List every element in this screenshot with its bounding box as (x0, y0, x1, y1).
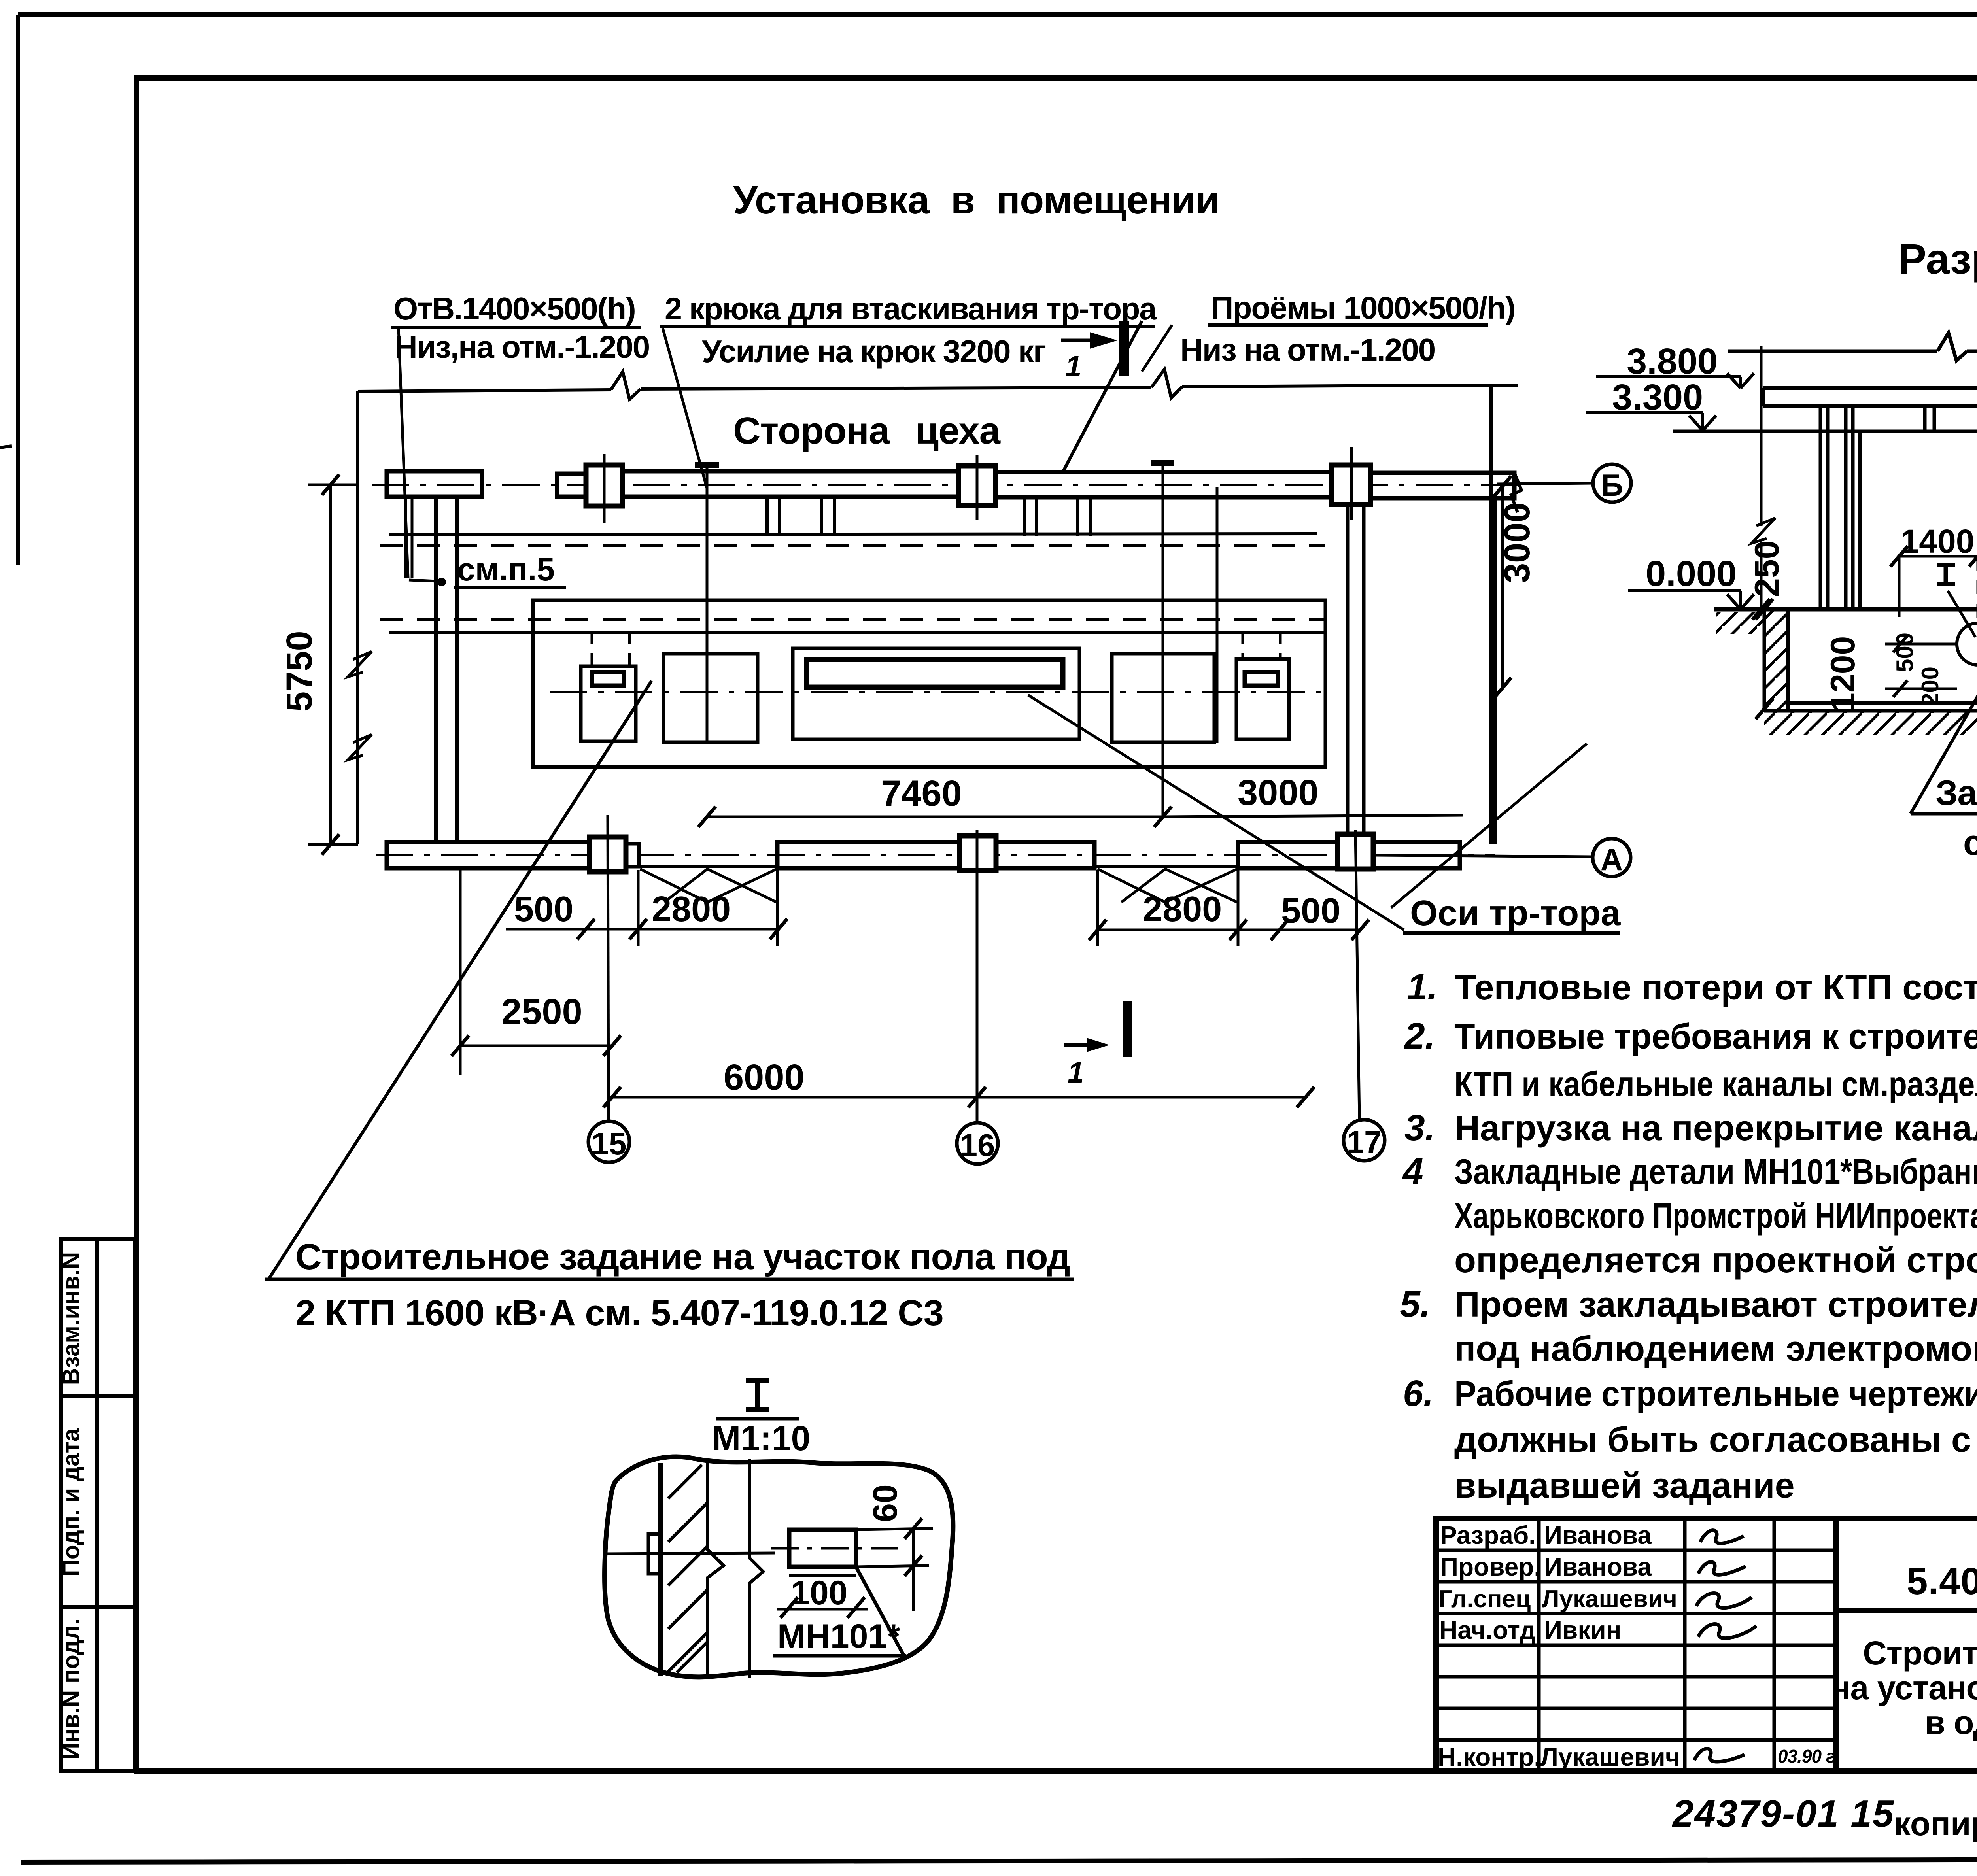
underline osi tr-tora (1403, 931, 1620, 935)
PLAN VIEW (265, 290, 1631, 1333)
svg-text:Низ,на отм.-1.200: Низ,на отм.-1.200 (395, 329, 649, 365)
bottom wall thin sill line across right opening (1094, 865, 1238, 868)
underline sm p 5 (454, 586, 566, 589)
cable canal top edge (389, 534, 1317, 535)
TITLE BLOCK (1436, 1519, 1977, 1771)
pit bottom inner (1788, 701, 1977, 705)
stamp divider 1 (61, 1394, 135, 1398)
underline under otv label (391, 326, 641, 329)
top wall band: left wall segment (387, 471, 482, 497)
transformer cell sq3 (1112, 654, 1214, 742)
wall pier under column3 (1346, 504, 1350, 835)
SECTION VIEW (1586, 235, 1977, 863)
svg-text:1.: 1. (1407, 966, 1438, 1007)
svg-text:5750: 5750 (279, 631, 319, 712)
svg-text:1400: 1400 (1901, 523, 1975, 560)
LEFT STAMP COLUMN (61, 1239, 135, 1771)
svg-text:5.407-119.0.06 С3: 5.407-119.0.06 С3 (1907, 1560, 1977, 1602)
dashed stub 3 (1242, 633, 1244, 659)
leader to hook 1 (663, 328, 707, 488)
svg-text:16: 16 (960, 1128, 995, 1163)
ktp room outline rectangle (533, 600, 1325, 767)
dim 1400 1100 line (1899, 555, 1977, 558)
signature squiggle 8 (1694, 1749, 1745, 1762)
svg-text:Строительное задание на участо: Строительное задание на участок пола под (295, 1237, 1070, 1277)
top wall band: segment column1 to column2 (622, 471, 959, 497)
svg-text:Разраб.: Разраб. (1440, 1521, 1536, 1549)
left edge artifact tick (0, 446, 12, 448)
svg-text:3000: 3000 (1238, 773, 1319, 813)
underline zakladnye (1911, 812, 1977, 816)
title block outline (1436, 1519, 1977, 1771)
svg-text:4: 4 (1402, 1151, 1423, 1192)
shop side boundary line with breaks (358, 390, 611, 391)
detail wall second line with break (708, 1463, 724, 1676)
sheet outer bottom border (21, 1859, 1977, 1862)
break marks on left vertical (348, 652, 372, 677)
small dim line 200 level (1885, 688, 1957, 690)
sheet outer top border (18, 12, 1977, 17)
row line 2 (1436, 1580, 1836, 1584)
top wall band: segment column3 to right end (1370, 473, 1514, 498)
top wall band right end break (1511, 473, 1521, 512)
dimension 2800 500 right line (1098, 929, 1360, 931)
left extension line with 250 dim (1760, 346, 1763, 526)
dimension 3000 right vertical (1501, 486, 1504, 688)
svg-text:2500: 2500 (501, 992, 582, 1032)
signature table vertical 3 (1773, 1519, 1776, 1771)
svg-text:250: 250 (1748, 540, 1786, 597)
hatch under pit bottom (1764, 712, 1977, 735)
row line 3 (1436, 1612, 1836, 1615)
svg-text:Разрез 1-1: Разрез 1-1 (1898, 235, 1977, 283)
svg-text:Низ на отм.-1.200: Низ на отм.-1.200 (1180, 332, 1435, 367)
floor note underline (265, 1278, 1074, 1281)
svg-text:в один ряд.: в один ряд. (1925, 1704, 1977, 1741)
opening X mark right (1098, 869, 1237, 902)
svg-text:Б: Б (1601, 468, 1623, 503)
row line 4 (1436, 1644, 1836, 1647)
column 3 centerline vertical (1350, 447, 1353, 520)
signature squiggle 3 (1696, 1593, 1752, 1608)
svg-text:Харьковского Промстрой НИИпрое: Харьковского Промстрой НИИпроекта. Цифро… (1454, 1196, 1977, 1236)
svg-text:500: 500 (1892, 633, 1918, 672)
sq4 inner tab (1245, 672, 1278, 686)
svg-text:60: 60 (866, 1484, 904, 1522)
dashed stub 4 (1279, 633, 1282, 659)
stamp inner divider vertical (95, 1239, 99, 1771)
axis line 15 (608, 815, 609, 1121)
svg-text:2800: 2800 (652, 890, 731, 929)
svg-text:0.000: 0.000 (1646, 554, 1737, 594)
detail label I (755, 1381, 760, 1410)
plate dash-dot line (771, 1547, 905, 1550)
beam bottom line (1673, 430, 1977, 433)
extension verticals for left 500 2800 (637, 870, 640, 946)
svg-text:2 КТП 1600 кВ·А см. 5.407-119.: 2 КТП 1600 кВ·А см. 5.407-119.0.12 С3 (295, 1293, 943, 1333)
detail mid vertical line with break (749, 1459, 763, 1678)
pit bottom outer (1764, 709, 1977, 713)
extension vertical for 2500 (459, 870, 462, 1075)
svg-text:Подп. и дата: Подп. и дата (58, 1428, 84, 1576)
leader to zakladnye text (1911, 680, 1977, 814)
transformer cell sq4 (1236, 659, 1289, 739)
signature squiggle 1 (1700, 1530, 1744, 1543)
row line 6 (1436, 1707, 1836, 1710)
column 15 on bottom wall (590, 837, 626, 872)
pit left outer wall (1763, 609, 1766, 709)
dimension 2500 line (460, 1045, 612, 1047)
section cut mark bottom arrow (1064, 1043, 1103, 1047)
svg-text:17: 17 (1347, 1124, 1382, 1160)
hatch pit left wall (1766, 611, 1786, 709)
svg-text:Сторона цеха: Сторона цеха (733, 410, 1001, 452)
pilaster 1 below band (765, 497, 769, 536)
small dim line 500 level (1885, 643, 1956, 646)
svg-text:Нач.отд: Нач.отд (1439, 1616, 1536, 1644)
shop side left vertical edge (356, 391, 359, 844)
axis line 16 (976, 830, 979, 1123)
svg-text:ОтВ.1400×500(h): ОтВ.1400×500(h) (393, 291, 635, 326)
dimension 7460 line (707, 816, 1163, 818)
svg-text:500: 500 (1281, 891, 1340, 931)
triangle leader side (856, 1567, 903, 1655)
hook 1 top bar (695, 462, 719, 468)
detail wall hatch strokes (668, 1465, 708, 1672)
svg-text:Оси тр-тора: Оси тр-тора (1410, 894, 1621, 933)
underline under proemy label (1208, 323, 1488, 327)
cable canal dashed line 2 (380, 618, 1325, 621)
svg-text:КТП и кабельные каналы см.разд: КТП и кабельные каналы см.разделы 3 и 6 … (1454, 1064, 1977, 1103)
column 17 on bottom wall (1338, 834, 1373, 869)
dim ticks 100 (781, 1597, 865, 1618)
bottom wall band: stub right of column 15 (626, 844, 639, 867)
dim ticks 1200 (1756, 599, 1773, 719)
svg-text:3.: 3. (1404, 1107, 1435, 1148)
pilaster 2 below band (820, 497, 823, 536)
cable canal bottom edge (389, 631, 1325, 634)
left column of section (4 lines) (1819, 406, 1822, 609)
svg-text:6.: 6. (1403, 1373, 1434, 1414)
svg-text:2 крюка для втаскивания тр-тор: 2 крюка для втаскивания тр-тора (665, 291, 1157, 326)
svg-text:определяется проектной строите: определяется проектной строительной орга… (1454, 1241, 1977, 1280)
signature table vertical 1 (1537, 1519, 1541, 1771)
svg-text:5.: 5. (1400, 1283, 1431, 1324)
axis line 17 (1355, 830, 1359, 1120)
dimension 5750 vertical line (329, 485, 332, 844)
extension verticals for right 2800 500 (1096, 870, 1099, 946)
column 2 on top wall (958, 466, 996, 505)
right transformer axis vertical (1216, 487, 1219, 743)
cable canal dashed line 1 (380, 544, 1325, 547)
top wall band: stub after opening (557, 474, 586, 497)
leader osi tr-tora diagonal 2 (1391, 744, 1587, 908)
short tick below proemy underline (1142, 325, 1172, 372)
svg-text:Н.контр.: Н.контр. (1438, 1743, 1541, 1771)
underline under hooks label (660, 325, 1155, 328)
svg-text:24379-01 15: 24379-01 15 (1672, 1793, 1894, 1835)
dashed stub 1 from canal to sq1 (591, 633, 593, 666)
sq1 inner tab (592, 672, 624, 686)
svg-text:2800: 2800 (1143, 890, 1222, 929)
extension line to circle B (1497, 483, 1593, 484)
extension lines for 60 (856, 1528, 933, 1530)
svg-text:Лукашевич: Лукашевич (1540, 1743, 1680, 1771)
svg-text:А: А (1601, 842, 1623, 877)
pit left inner wall (1786, 609, 1790, 709)
dimension 6000 line (612, 1096, 1306, 1099)
switchgear inner long bar (807, 659, 1063, 687)
axis circle 15 (588, 1121, 629, 1162)
svg-text:1: 1 (1068, 1056, 1084, 1089)
slab left end (1761, 388, 1765, 406)
wall opening edge lines (otv) (404, 499, 407, 578)
leader from I to circle (1948, 591, 1975, 637)
dim line 100 (777, 1608, 868, 1611)
detail small tab on wall (648, 1534, 661, 1574)
embedded plate MN101 (789, 1530, 856, 1567)
svg-text:2.: 2. (1404, 1015, 1435, 1056)
svg-text:Усилие на крюк 3200 кг: Усилие на крюк 3200 кг (702, 334, 1046, 369)
doc number cell bottom (1836, 1608, 1977, 1613)
section cut mark bottom thick bar (1123, 1001, 1132, 1057)
svg-text:Типовые требования к строитель: Типовые требования к строительным задани… (1454, 1017, 1977, 1056)
axis circle A (1593, 839, 1631, 877)
top wall band: segment column2 to column3 (996, 472, 1332, 497)
transformer cell sq1 (581, 666, 636, 741)
svg-text:Иванова: Иванова (1544, 1521, 1652, 1549)
svg-text:100: 100 (791, 1574, 848, 1612)
bottom wall thin sill line across left opening (639, 865, 777, 868)
svg-text:Провер.: Провер. (1440, 1553, 1541, 1581)
slab top line (1763, 386, 1977, 390)
svg-text:см.п.5: см.п.5 (457, 552, 555, 588)
big leader line to floor note (268, 681, 652, 1279)
stamp divider 2 (61, 1605, 135, 1609)
svg-text:Гл.спец: Гл.спец (1438, 1585, 1531, 1613)
plate bottom line (789, 1574, 856, 1577)
svg-text:Нагрузка на перекрытие канала: Нагрузка на перекрытие канала - 200 кг/м… (1454, 1109, 1977, 1148)
svg-text:на установку 2КТП-1600: на установку 2КТП-1600 (1831, 1669, 1977, 1706)
bottom wall centerline dash-dot (376, 854, 1495, 856)
svg-text:Ивкин: Ивкин (1544, 1616, 1621, 1644)
svg-text:Взам.инв.N: Взам.инв.N (58, 1252, 84, 1385)
svg-text:Рабочие строительные чертежи д: Рабочие строительные чертежи до выдачи и… (1454, 1374, 1977, 1414)
tick line to dot (409, 580, 437, 581)
node circle in pit (1957, 623, 1977, 665)
hook 1 axis line down to transformer (706, 465, 709, 742)
svg-text:должны быть согласованы с прое: должны быть согласованы с проектной орга… (1454, 1420, 1977, 1460)
detail label line (716, 1417, 799, 1421)
slab bottom line (1763, 404, 1977, 408)
signature squiggle 2 (1698, 1562, 1746, 1575)
section cut mark top: thick bar (1119, 321, 1129, 376)
column 1 centerline (603, 454, 606, 523)
svg-text:выдавшей задание: выдавшей задание (1454, 1466, 1795, 1506)
svg-text:200: 200 (1917, 667, 1943, 706)
hook 2 top bar (1151, 460, 1174, 466)
section cut mark top: arrow (1061, 339, 1107, 342)
svg-text:копировал: Барковская: копировал: Барковская (1894, 1805, 1977, 1842)
hatch left of pit (1716, 612, 1763, 634)
axis circle 17 (1344, 1120, 1385, 1161)
signature table vertical 2 (1683, 1519, 1687, 1771)
big divider left of doc cell (1833, 1519, 1839, 1771)
svg-text:500: 500 (514, 890, 573, 929)
axis circle B (1593, 464, 1631, 502)
svg-text:Инв.N подл.: Инв.N подл. (58, 1618, 84, 1760)
detail blob outline (605, 1457, 953, 1677)
column 3 on top wall (1332, 465, 1370, 504)
detail centerline horizontal (605, 1553, 775, 1554)
svg-text:Проем закладывают строители по: Проем закладывают строители после прокла… (1454, 1285, 1977, 1324)
leader from otv label to wall opening (399, 328, 408, 578)
column 2 centerline (976, 455, 979, 520)
extension 1400 left (1898, 556, 1901, 617)
DETAIL I (605, 1381, 953, 1678)
svg-text:Тепловые потери от КТП составл: Тепловые потери от КТП составляют 23 квт (1454, 968, 1977, 1007)
pilaster 3 below band (1023, 498, 1026, 536)
beam cross-section verticals (1923, 406, 1927, 431)
svg-text:Лукашевич: Лукашевич (1542, 1585, 1677, 1613)
dim 60 vertical line (912, 1527, 915, 1611)
svg-text:Установка в помещении: Установка в помещении (733, 178, 1219, 222)
transformer axis dash-dot centerline (550, 691, 1325, 693)
stamp outline (61, 1239, 135, 1771)
svg-text:см.п.4 и узел I: см.п.4 и узел I (1963, 823, 1977, 863)
row line 7 (1436, 1738, 1836, 1742)
long switchgear rectangle (793, 648, 1079, 739)
transformer cell sq2 (663, 654, 758, 742)
hook 2 axis line down to dimension (1162, 463, 1164, 817)
svg-text:МН101*: МН101* (777, 1617, 900, 1655)
column 1 on top wall (586, 465, 622, 506)
dimension 500 2800 left line (506, 928, 780, 931)
left room wall vertical pair (434, 497, 438, 844)
pilaster 4 below band (1076, 498, 1079, 536)
svg-text:М1:10: М1:10 (712, 1419, 810, 1458)
svg-text:7460: 7460 (881, 773, 962, 814)
bottom wall band: left segment (387, 842, 590, 868)
leader to hook 2 (proemy leader to wall) (1064, 321, 1142, 470)
svg-text:1: 1 (1065, 350, 1081, 383)
axis circle 16 (957, 1123, 998, 1164)
detail wall face thick line (658, 1463, 663, 1676)
column 16 on bottom wall (960, 836, 996, 871)
svg-text:Закладные детали МН101*Выбраны: Закладные детали МН101*Выбраны по типово… (1454, 1152, 1977, 1192)
dot marker near sm p 5 (437, 578, 446, 586)
bottom wall band: middle segment (777, 842, 1094, 868)
svg-text:Иванова: Иванова (1544, 1553, 1652, 1581)
extension middle dashed to circle (1977, 556, 1977, 623)
roof top line with break (1728, 350, 1937, 353)
dashed stub 2 (628, 633, 631, 666)
floor line 0.000 (1714, 607, 1977, 612)
beam edge line near left column (1858, 431, 1862, 609)
svg-text:3000: 3000 (1497, 502, 1537, 583)
opening X mark left (640, 869, 777, 902)
row line 1 (1436, 1549, 1836, 1552)
dimension 3000 line bottom (continuation) (1163, 815, 1463, 817)
svg-text:03.90 г.: 03.90 г. (1778, 1746, 1840, 1766)
svg-text:15: 15 (592, 1126, 627, 1161)
NOTES (1400, 966, 1977, 1506)
top wall centerline dash-dot (372, 484, 1518, 486)
bottom wall band: right segment (1238, 842, 1460, 868)
svg-text:Строительное задание: Строительное задание (1863, 1634, 1977, 1672)
svg-text:6000: 6000 (724, 1057, 805, 1098)
svg-text:Проёмы 1000×500/h): Проёмы 1000×500/h) (1211, 290, 1515, 325)
sheet outer left border (partial) (16, 15, 20, 565)
svg-text:1200: 1200 (1824, 636, 1862, 712)
signature squiggle 4 (1698, 1624, 1756, 1638)
node label I (1944, 565, 1948, 584)
row line 5 (1436, 1675, 1836, 1679)
right room wall vertical pair (1489, 387, 1493, 844)
underline MN101 (773, 1654, 906, 1658)
leader osi tr-tora diagonal 1 (1028, 695, 1404, 930)
svg-text:под наблюдением электромонтажн: под наблюдением электромонтажников. (1454, 1329, 1977, 1369)
svg-text:Закладные детали МН101*через 1: Закладные детали МН101*через 1 м (1935, 773, 1977, 813)
extension line to circle A (1376, 855, 1593, 857)
